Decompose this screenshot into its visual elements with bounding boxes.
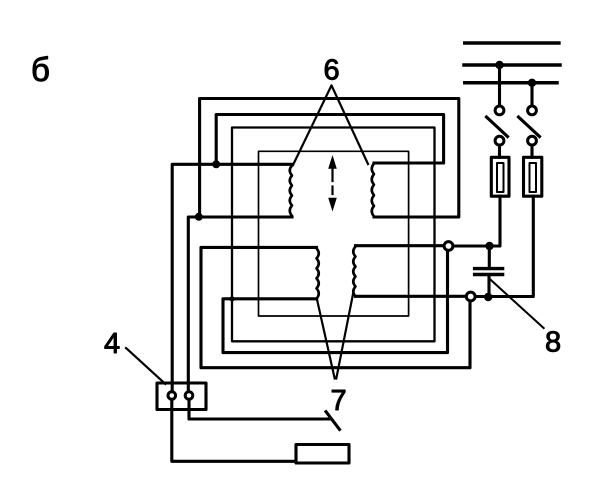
coil 7 lower-right winding scallops xyxy=(353,247,355,297)
capacitor 8 bottom plate xyxy=(475,273,503,276)
wire: upper loop 2 (connects upper coil tops) xyxy=(216,115,443,165)
three-phase bus line 1 xyxy=(465,41,559,45)
armature movement arrow down xyxy=(328,198,337,212)
three-phase bus line 3 xyxy=(465,81,557,85)
terminal circle 2 (to fuse2/capacitor) xyxy=(466,292,475,301)
wire: lower-right coil bottom lead to terminal circle 2 xyxy=(356,295,467,298)
node: junction dot upper-left bottom lead x outer loop xyxy=(195,213,203,221)
node: small junction dot lower-left bottom lead x loop3 xyxy=(229,296,234,301)
wire: lower-left coil top lead, around bottom to terminal circle 2 xyxy=(201,247,470,367)
armature movement dash xyxy=(331,187,333,195)
terminal block contact 2 xyxy=(185,392,193,400)
wire: fuse1 down to terminal line xyxy=(453,196,500,246)
wire: loop 3 rectangle xyxy=(232,128,435,342)
node: bus 3 tap dot xyxy=(528,79,536,87)
wire: outer loop (connects upper coil bottoms around the top) xyxy=(200,99,459,218)
node: junction dot capacitor bottom xyxy=(484,293,492,301)
switch 2 bottom contact xyxy=(528,136,537,145)
svg-text:7: 7 xyxy=(331,385,347,417)
pointer line from 8 to capacitor xyxy=(489,278,544,328)
coil 6 upper-right winding scallops xyxy=(372,164,374,217)
switch 1 blade xyxy=(487,117,508,137)
wire: bus2 down to switch 1 xyxy=(498,65,501,106)
switch 2 blade xyxy=(519,117,540,137)
terminal block 4 xyxy=(157,383,206,410)
terminal circle 1 (to fuse1/capacitor) xyxy=(444,242,453,251)
three-phase bus line 2 xyxy=(464,63,560,67)
svg-text:8: 8 xyxy=(545,327,561,359)
coil 6 upper-left winding scallops xyxy=(290,166,292,217)
wire: block contact 1 down and right along bottom xyxy=(172,400,296,462)
node: junction dot upper-left top lead x loop2 xyxy=(212,160,220,168)
wire: upper-left bottom lead to corner x188 down to block xyxy=(188,217,292,392)
switch 2 top contact xyxy=(528,106,537,115)
core yoke thin rectangle xyxy=(259,151,409,316)
fuse F2 body xyxy=(524,157,542,196)
fuse F1 inner element xyxy=(497,163,504,192)
pointer lines from 6 to the two upper coils xyxy=(293,85,368,165)
svg-text:б: б xyxy=(31,51,50,88)
wire: fuse2 down to terminal line 2 xyxy=(475,196,533,296)
pointer lines from 7 to the two lower coils xyxy=(317,289,354,379)
capacitor 8 top lead xyxy=(488,246,491,267)
pointer line from 4 to terminal block xyxy=(126,348,165,384)
load resistor box at bottom xyxy=(296,445,349,464)
fuse F1 body xyxy=(491,157,509,196)
wire: bus3 down to switch 2 xyxy=(530,83,533,106)
switch 1 top contact xyxy=(495,106,504,115)
switch 1 bottom contact xyxy=(495,136,504,145)
wire: lower-right coil top lead to terminal circle 1 xyxy=(356,244,445,247)
capacitor 8 bottom lead xyxy=(487,276,490,297)
switch 7 blade xyxy=(326,412,340,430)
svg-text:4: 4 xyxy=(104,328,120,360)
wire: winding 6 upper-left top lead, left drop to terminal block xyxy=(172,164,292,391)
coil 7 lower-left winding scallops xyxy=(317,248,319,298)
armature movement arrow up (dashed) xyxy=(331,169,333,182)
node: junction dot capacitor top xyxy=(485,242,493,250)
node: bus 2 tap dot xyxy=(495,61,503,69)
wire: lower-left coil bottom lead, via line4 to terminal circle 1 xyxy=(223,251,448,353)
capacitor 8 top plate xyxy=(475,267,503,270)
svg-text:6: 6 xyxy=(324,55,340,87)
fuse F2 inner element xyxy=(530,163,537,192)
wire: block contact 2 down, right to switch 7 xyxy=(189,400,329,420)
wire: switch2 to fuse2 xyxy=(530,145,533,157)
wire: switch1 to fuse1 xyxy=(498,145,501,157)
terminal block contact 1 xyxy=(168,392,176,400)
